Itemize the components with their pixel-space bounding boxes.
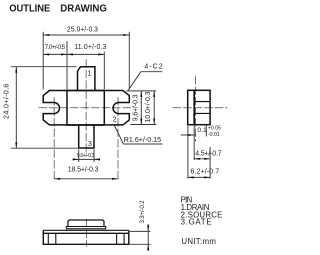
- svg-text:6.2+/-0.7: 6.2+/-0.7: [191, 168, 220, 175]
- svg-text:4-C2: 4-C2: [144, 63, 162, 70]
- svg-text:2: 2: [113, 117, 117, 124]
- svg-text:0.1: 0.1: [197, 127, 207, 134]
- svg-text:R1.6+/-0.15: R1.6+/-0.15: [124, 136, 161, 144]
- svg-text:25.0+/-0.3: 25.0+/-0.3: [67, 26, 98, 33]
- svg-text:DRAWING: DRAWING: [60, 4, 107, 15]
- svg-text:11.0+/-0.3: 11.0+/-0.3: [74, 44, 106, 51]
- svg-text:4.5+/-0.7: 4.5+/-0.7: [195, 151, 221, 158]
- svg-text:+0.05: +0.05: [208, 126, 221, 132]
- svg-text:3.GATE: 3.GATE: [181, 218, 212, 227]
- svg-text:-0.01: -0.01: [208, 132, 220, 138]
- svg-text:UNIT:mm: UNIT:mm: [181, 237, 216, 246]
- svg-text:7.0+/-0.5: 7.0+/-0.5: [45, 44, 66, 51]
- svg-text:9.6+/-0.3: 9.6+/-0.3: [133, 94, 140, 121]
- svg-text:3.3+/-0.2: 3.3+/-0.2: [139, 200, 146, 224]
- svg-text:OUTLINE: OUTLINE: [9, 4, 50, 15]
- svg-text:18.5+/-0.3: 18.5+/-0.3: [68, 166, 99, 173]
- svg-text:10.0+/-0.3: 10.0+/-0.3: [145, 91, 152, 122]
- svg-text:24.0+/-0.6: 24.0+/-0.6: [2, 84, 11, 119]
- svg-text:5.0+/-0.3: 5.0+/-0.3: [77, 153, 94, 159]
- svg-text:1: 1: [87, 70, 91, 77]
- svg-text:3: 3: [88, 141, 92, 148]
